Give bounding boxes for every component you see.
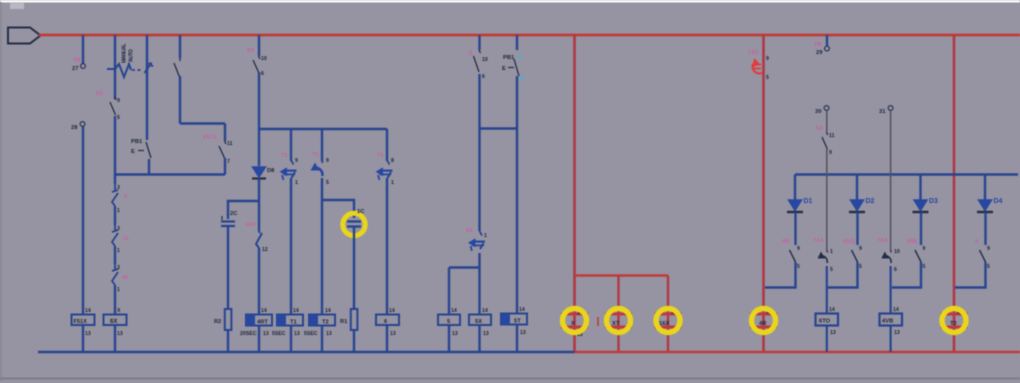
wire coil 4RT to bus xyxy=(258,326,260,353)
wire line 30 to coil 6TO xyxy=(826,266,828,314)
svg-text:5: 5 xyxy=(830,267,833,273)
svg-text:14: 14 xyxy=(893,307,899,313)
svg-text:13: 13 xyxy=(452,331,458,337)
svg-text:1: 1 xyxy=(484,233,487,239)
contact chain c1 on column B xyxy=(112,184,118,206)
svg-text:5: 5 xyxy=(117,115,120,121)
svg-text:14: 14 xyxy=(829,307,835,313)
svg-text:5: 5 xyxy=(326,180,329,186)
svg-text:5T: 5T xyxy=(514,319,521,325)
svg-text:1: 1 xyxy=(295,180,298,186)
wire coil 4VB to bus xyxy=(889,325,891,353)
svg-text:7: 7 xyxy=(227,159,230,165)
coil T2 xyxy=(309,315,335,326)
wire 2C to R2 xyxy=(227,226,229,310)
svg-text:13: 13 xyxy=(520,330,526,336)
diode D4 xyxy=(979,200,992,211)
svg-text:D4: D4 xyxy=(994,198,1003,205)
branch D1 wire upper xyxy=(794,175,796,201)
svg-text:6: 6 xyxy=(261,71,264,77)
svg-text:XT: XT xyxy=(612,321,620,327)
coil 5T xyxy=(501,314,527,325)
wire line 30 lower xyxy=(826,149,828,250)
svg-text:12: 12 xyxy=(262,247,268,253)
svg-text:R1: R1 xyxy=(340,319,348,325)
svg-text:X: X xyxy=(571,321,575,327)
wire branch D3 to line 31 xyxy=(892,262,921,288)
svg-text:1: 1 xyxy=(117,287,120,293)
resistor R2 xyxy=(225,309,232,330)
top white strip xyxy=(0,0,1020,3)
svg-text:9: 9 xyxy=(117,98,120,104)
svg-text:14: 14 xyxy=(519,307,525,313)
svg-text:TB: TB xyxy=(73,58,81,64)
wire 1C to R1 xyxy=(353,227,355,311)
svg-text:1C: 1C xyxy=(357,209,365,215)
coil 4RT xyxy=(246,315,272,326)
svg-text:5X: 5X xyxy=(475,319,482,325)
wire R2 to bus xyxy=(227,330,229,352)
branch D2 wire upper xyxy=(856,175,858,201)
wire stub to terminal 27 xyxy=(82,35,84,64)
red vertical wire V1 xyxy=(573,35,576,352)
coil 5 xyxy=(438,315,460,326)
wire column G upper xyxy=(290,129,292,161)
svg-text:6TO: 6TO xyxy=(819,319,831,325)
node terminal 30 xyxy=(824,106,829,111)
svg-text:10: 10 xyxy=(261,56,267,62)
svg-text:14: 14 xyxy=(389,308,395,314)
svg-text:29: 29 xyxy=(816,50,823,56)
coil 6X xyxy=(104,315,127,326)
wire H-link D-E xyxy=(180,122,225,124)
node terminal 31 xyxy=(888,106,893,111)
svg-text:8: 8 xyxy=(391,158,394,164)
svg-text:1: 1 xyxy=(117,208,120,214)
svg-text:13: 13 xyxy=(894,330,900,336)
contact chain c3 on column B xyxy=(112,264,118,285)
red vertical wire V2 xyxy=(762,35,765,352)
top-left corner mark xyxy=(10,3,24,9)
yellow highlight ring on coil T2r xyxy=(942,309,966,333)
svg-text:MANUAL: MANUAL xyxy=(122,43,128,63)
wire H-link J-K xyxy=(480,127,518,129)
svg-text:9: 9 xyxy=(326,158,329,164)
svg-text:E: E xyxy=(131,149,135,155)
branch D4 wire upper xyxy=(984,175,986,201)
yellow highlight ring on 1C xyxy=(343,213,365,235)
svg-text:14: 14 xyxy=(482,308,488,314)
yellow highlight ring on coil XT xyxy=(607,309,631,333)
svg-text:10: 10 xyxy=(482,57,488,63)
wire column G lower to coil T1 xyxy=(290,178,292,315)
svg-text:9: 9 xyxy=(923,246,926,252)
svg-text:4RT: 4RT xyxy=(257,320,268,326)
contact on column D xyxy=(179,58,181,61)
coil 4VB xyxy=(880,314,903,326)
svg-text:9: 9 xyxy=(797,246,800,252)
node terminal 28 xyxy=(80,122,85,127)
svg-text:F51X: F51X xyxy=(74,319,88,325)
svg-text:T1: T1 xyxy=(312,152,320,158)
svg-text:14: 14 xyxy=(325,308,331,314)
svg-text:3: 3 xyxy=(117,226,120,232)
svg-text:9: 9 xyxy=(859,246,862,252)
svg-text:S1: S1 xyxy=(466,228,474,234)
wire column J upper xyxy=(478,35,480,50)
svg-text:13: 13 xyxy=(294,331,300,337)
diode D8 xyxy=(253,167,266,177)
coil F51X xyxy=(72,315,95,326)
red bottom bus L2 xyxy=(573,351,1020,354)
wire column B c1-c2 xyxy=(114,206,116,225)
diode D1 xyxy=(789,200,802,211)
wire column J middle xyxy=(478,74,480,231)
svg-text:E: E xyxy=(502,66,506,72)
wire coil 6X to bus xyxy=(114,325,116,352)
wire S1 to corner xyxy=(449,253,480,268)
wire coil T1 to bus xyxy=(290,326,292,353)
wire line 31 to coil 4VB xyxy=(889,266,891,314)
left edge shadow xyxy=(0,2,2,381)
svg-text:5: 5 xyxy=(797,264,800,270)
wire H-bus left xyxy=(115,173,225,175)
svg-text:7A1: 7A1 xyxy=(813,238,824,244)
svg-text:2C: 2C xyxy=(230,211,238,217)
yellow highlight ring on coil X xyxy=(563,309,587,333)
svg-text:LR1: LR1 xyxy=(748,50,760,56)
svg-text:T2: T2 xyxy=(281,153,288,159)
node terminal 27 xyxy=(81,64,86,69)
svg-text:5: 5 xyxy=(923,264,926,270)
wire column B c2-c3 xyxy=(114,246,116,264)
svg-text:16X: 16X xyxy=(245,222,255,228)
svg-text:6: 6 xyxy=(482,74,485,80)
svg-text:1: 1 xyxy=(391,180,394,186)
coil 6TO xyxy=(816,314,839,326)
wire terminal 28 to coil F51X xyxy=(82,127,84,316)
coil 5X xyxy=(469,315,491,326)
svg-text:30: 30 xyxy=(815,109,821,115)
wire coil 6TO to bus xyxy=(826,325,828,353)
wire column H lower to coil T2 xyxy=(321,178,323,315)
wire coil F51X to bus xyxy=(82,325,84,352)
branch D3 wire upper xyxy=(919,175,921,201)
wire D3 to contact xyxy=(920,212,922,245)
svg-text:13: 13 xyxy=(85,331,91,337)
svg-text:TB: TB xyxy=(814,42,822,48)
wire D2 to contact xyxy=(856,212,858,245)
svg-text:9: 9 xyxy=(766,56,769,62)
svg-text:27: 27 xyxy=(72,66,78,72)
wire coil 5X to bus xyxy=(478,325,480,352)
svg-text:PB1: PB1 xyxy=(131,139,143,145)
svg-text:6XQ: 6XQ xyxy=(843,239,855,245)
svg-text:PB1: PB1 xyxy=(503,55,515,61)
coil X xyxy=(563,314,587,327)
red vertical wire V3 xyxy=(953,35,956,352)
red sub-bus wire xyxy=(575,274,669,276)
red top bus L1 xyxy=(39,34,1020,37)
coil 6 xyxy=(376,315,399,326)
svg-text:46: 46 xyxy=(122,275,129,281)
wire column F lower to coil 4RT xyxy=(258,248,260,315)
svg-text:5: 5 xyxy=(766,75,769,81)
red drop wire to coil XT xyxy=(617,276,619,353)
svg-text:11: 11 xyxy=(227,141,233,147)
svg-text:AUTO: AUTO xyxy=(129,49,135,62)
node terminal 29 xyxy=(825,46,830,51)
contact chain c2 on column B xyxy=(112,225,118,246)
wire D8 to node F2 xyxy=(258,178,260,230)
svg-text:V9B: V9B xyxy=(906,239,917,245)
source flag connector xyxy=(8,28,41,44)
wire terminal 30 down xyxy=(826,111,828,133)
wire coil 5T to bus xyxy=(516,325,518,353)
wire branch to capacitor 1C xyxy=(322,200,354,218)
wire column K upper xyxy=(516,35,518,50)
svg-text:5: 5 xyxy=(987,264,990,270)
wire D4 to contact xyxy=(984,212,986,245)
svg-text:14: 14 xyxy=(85,308,91,314)
svg-text:13: 13 xyxy=(117,331,123,337)
svg-text:20SEC: 20SEC xyxy=(240,331,257,337)
yellow highlight ring on coil 4R xyxy=(752,309,776,333)
svg-text:F57X: F57X xyxy=(203,135,217,141)
blue bottom bus N xyxy=(38,351,575,354)
wire column I lower to coil 6 xyxy=(386,178,388,315)
svg-text:4VB: 4VB xyxy=(882,319,893,325)
svg-text:6X: 6X xyxy=(96,91,103,97)
svg-text:D8: D8 xyxy=(267,168,275,174)
wire drop to coil 5X xyxy=(478,268,480,316)
svg-text:13: 13 xyxy=(263,331,269,337)
blue right bus xyxy=(795,173,1018,176)
wire column B upper xyxy=(114,35,116,99)
svg-text:6X: 6X xyxy=(110,319,117,325)
coil T2r xyxy=(942,314,966,327)
bottom shadow line xyxy=(0,378,1020,380)
wire line 31 xyxy=(890,111,892,251)
svg-text:5: 5 xyxy=(859,264,862,270)
wire column H upper xyxy=(321,129,323,161)
wire R1 to bus xyxy=(353,330,355,352)
svg-text:13: 13 xyxy=(830,330,836,336)
svg-text:31: 31 xyxy=(879,109,886,115)
svg-text:D2: D2 xyxy=(866,198,875,205)
diode D3 xyxy=(914,200,927,211)
resistor R1 xyxy=(351,309,358,330)
wire column B middle xyxy=(114,116,116,184)
svg-text:D1: D1 xyxy=(804,198,813,205)
wire column F middle xyxy=(258,72,260,166)
wire column D lower xyxy=(179,76,181,124)
wire column B lower to coil 6X xyxy=(114,285,116,315)
svg-text:14: 14 xyxy=(261,308,267,314)
wire PB1 to H-bus xyxy=(148,159,150,175)
wire branch to capacitor 2C xyxy=(228,201,259,219)
svg-text:5X: 5X xyxy=(816,126,823,132)
coil 4R xyxy=(752,314,776,327)
wire coil 5 to bus xyxy=(448,325,450,352)
svg-text:6X: 6X xyxy=(247,48,254,54)
coil XT xyxy=(607,314,631,327)
svg-text:10: 10 xyxy=(894,249,900,255)
svg-text:7A3: 7A3 xyxy=(877,238,888,244)
wire stub to terminal 29 xyxy=(826,35,828,46)
svg-text:13: 13 xyxy=(390,331,396,337)
svg-text:T1: T1 xyxy=(377,153,385,159)
svg-text:D3: D3 xyxy=(929,198,938,205)
svg-text:13: 13 xyxy=(483,331,489,337)
svg-text:9: 9 xyxy=(829,150,832,156)
wire column C upper xyxy=(146,35,148,140)
svg-text:T2: T2 xyxy=(322,320,329,326)
svg-text:6: 6 xyxy=(894,267,897,273)
wire branch D1 to V2 xyxy=(765,262,796,288)
svg-text:9: 9 xyxy=(295,158,298,164)
svg-text:3: 3 xyxy=(117,265,120,271)
svg-text:3: 3 xyxy=(117,185,120,191)
wire H-bus2 xyxy=(259,128,387,130)
svg-text:T2: T2 xyxy=(950,321,957,327)
wire coil T2 to bus xyxy=(321,326,323,353)
svg-text:11: 11 xyxy=(829,133,835,139)
coil T1 xyxy=(277,315,303,326)
svg-text:5SEC: 5SEC xyxy=(304,331,318,337)
svg-text:14: 14 xyxy=(293,308,299,314)
wire column E upper xyxy=(224,124,226,142)
svg-text:1: 1 xyxy=(117,248,120,254)
svg-text:1: 1 xyxy=(830,249,833,255)
wire D1 to contact xyxy=(794,212,796,245)
svg-text:4R: 4R xyxy=(759,321,767,327)
svg-text:9: 9 xyxy=(987,246,990,252)
yellow highlight ring on coil 16X xyxy=(656,309,680,333)
svg-text:4B: 4B xyxy=(782,239,789,245)
svg-text:13: 13 xyxy=(326,331,332,337)
red tick label xyxy=(597,317,599,326)
svg-text:1L: 1L xyxy=(123,236,130,242)
svg-text:T1: T1 xyxy=(290,320,298,326)
diode D2 xyxy=(851,200,864,211)
red drop wire to coil 16X xyxy=(667,276,669,353)
wire column D upper xyxy=(179,35,181,58)
wire coil 6 to bus xyxy=(386,325,388,352)
svg-text:28: 28 xyxy=(71,125,78,131)
wire column F upper xyxy=(258,35,260,56)
wire drop to coil 5 xyxy=(448,268,450,316)
wire F57X to H-bus xyxy=(224,158,226,175)
svg-text:R2: R2 xyxy=(214,319,221,325)
coil 16X xyxy=(656,314,680,327)
svg-text:14: 14 xyxy=(451,308,457,314)
wire column I upper xyxy=(386,129,388,161)
selector switch MANUAL/AUTO xyxy=(107,43,153,77)
svg-text:X: X xyxy=(117,308,121,314)
wire branch D2 to line 30 xyxy=(828,262,858,288)
svg-text:5SEC: 5SEC xyxy=(272,331,286,337)
wire branch D4 to V3 xyxy=(955,262,986,288)
wire column K lower to coil 5T xyxy=(516,76,518,314)
